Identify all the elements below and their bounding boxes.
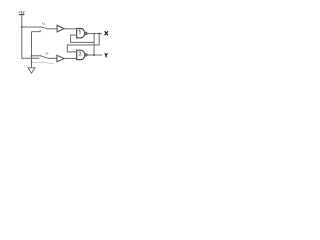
buffer U1	[57, 25, 64, 32]
switch S2 arm	[41, 56, 48, 58]
label 1	[79, 30, 80, 34]
power supply V1	[19, 11, 24, 13]
ground	[28, 68, 35, 74]
wire S2 top throw	[32, 55, 41, 57]
NAND gate 2	[77, 50, 87, 59]
wire common1	[47, 28, 57, 30]
wire S1 bottom throw	[32, 30, 41, 32]
contact S1 top	[40, 26, 41, 27]
NAND gate 1	[77, 29, 87, 38]
label S2	[46, 52, 49, 54]
label S1	[42, 22, 44, 24]
wire gate1 out	[87, 33, 102, 35]
node rail-S1	[21, 26, 23, 28]
node aux	[31, 62, 33, 64]
contact S2 top	[40, 55, 41, 56]
wire gate2 out	[87, 54, 102, 56]
buffer U2	[57, 55, 64, 61]
node fb top	[93, 33, 94, 34]
label 2	[79, 52, 82, 55]
node X	[98, 33, 100, 35]
wire aux branch	[32, 62, 54, 63]
wire feedback X to gate2	[67, 34, 99, 52]
wire rail	[22, 15, 40, 58]
wire ground net vertical	[31, 32, 33, 68]
wire feedback Y to gate1	[71, 35, 95, 42]
wire buffer2 out	[64, 57, 76, 59]
label Y	[105, 53, 108, 57]
switch S1 arm	[41, 27, 47, 29]
node S2	[31, 55, 33, 57]
wire S1 top throw	[22, 26, 41, 28]
power bar	[19, 14, 24, 16]
wire feedback vertical X-Y	[93, 34, 95, 55]
label X	[105, 31, 108, 35]
node Y	[93, 54, 95, 56]
wire buffer1 out	[64, 28, 77, 30]
wire common2	[48, 57, 57, 59]
